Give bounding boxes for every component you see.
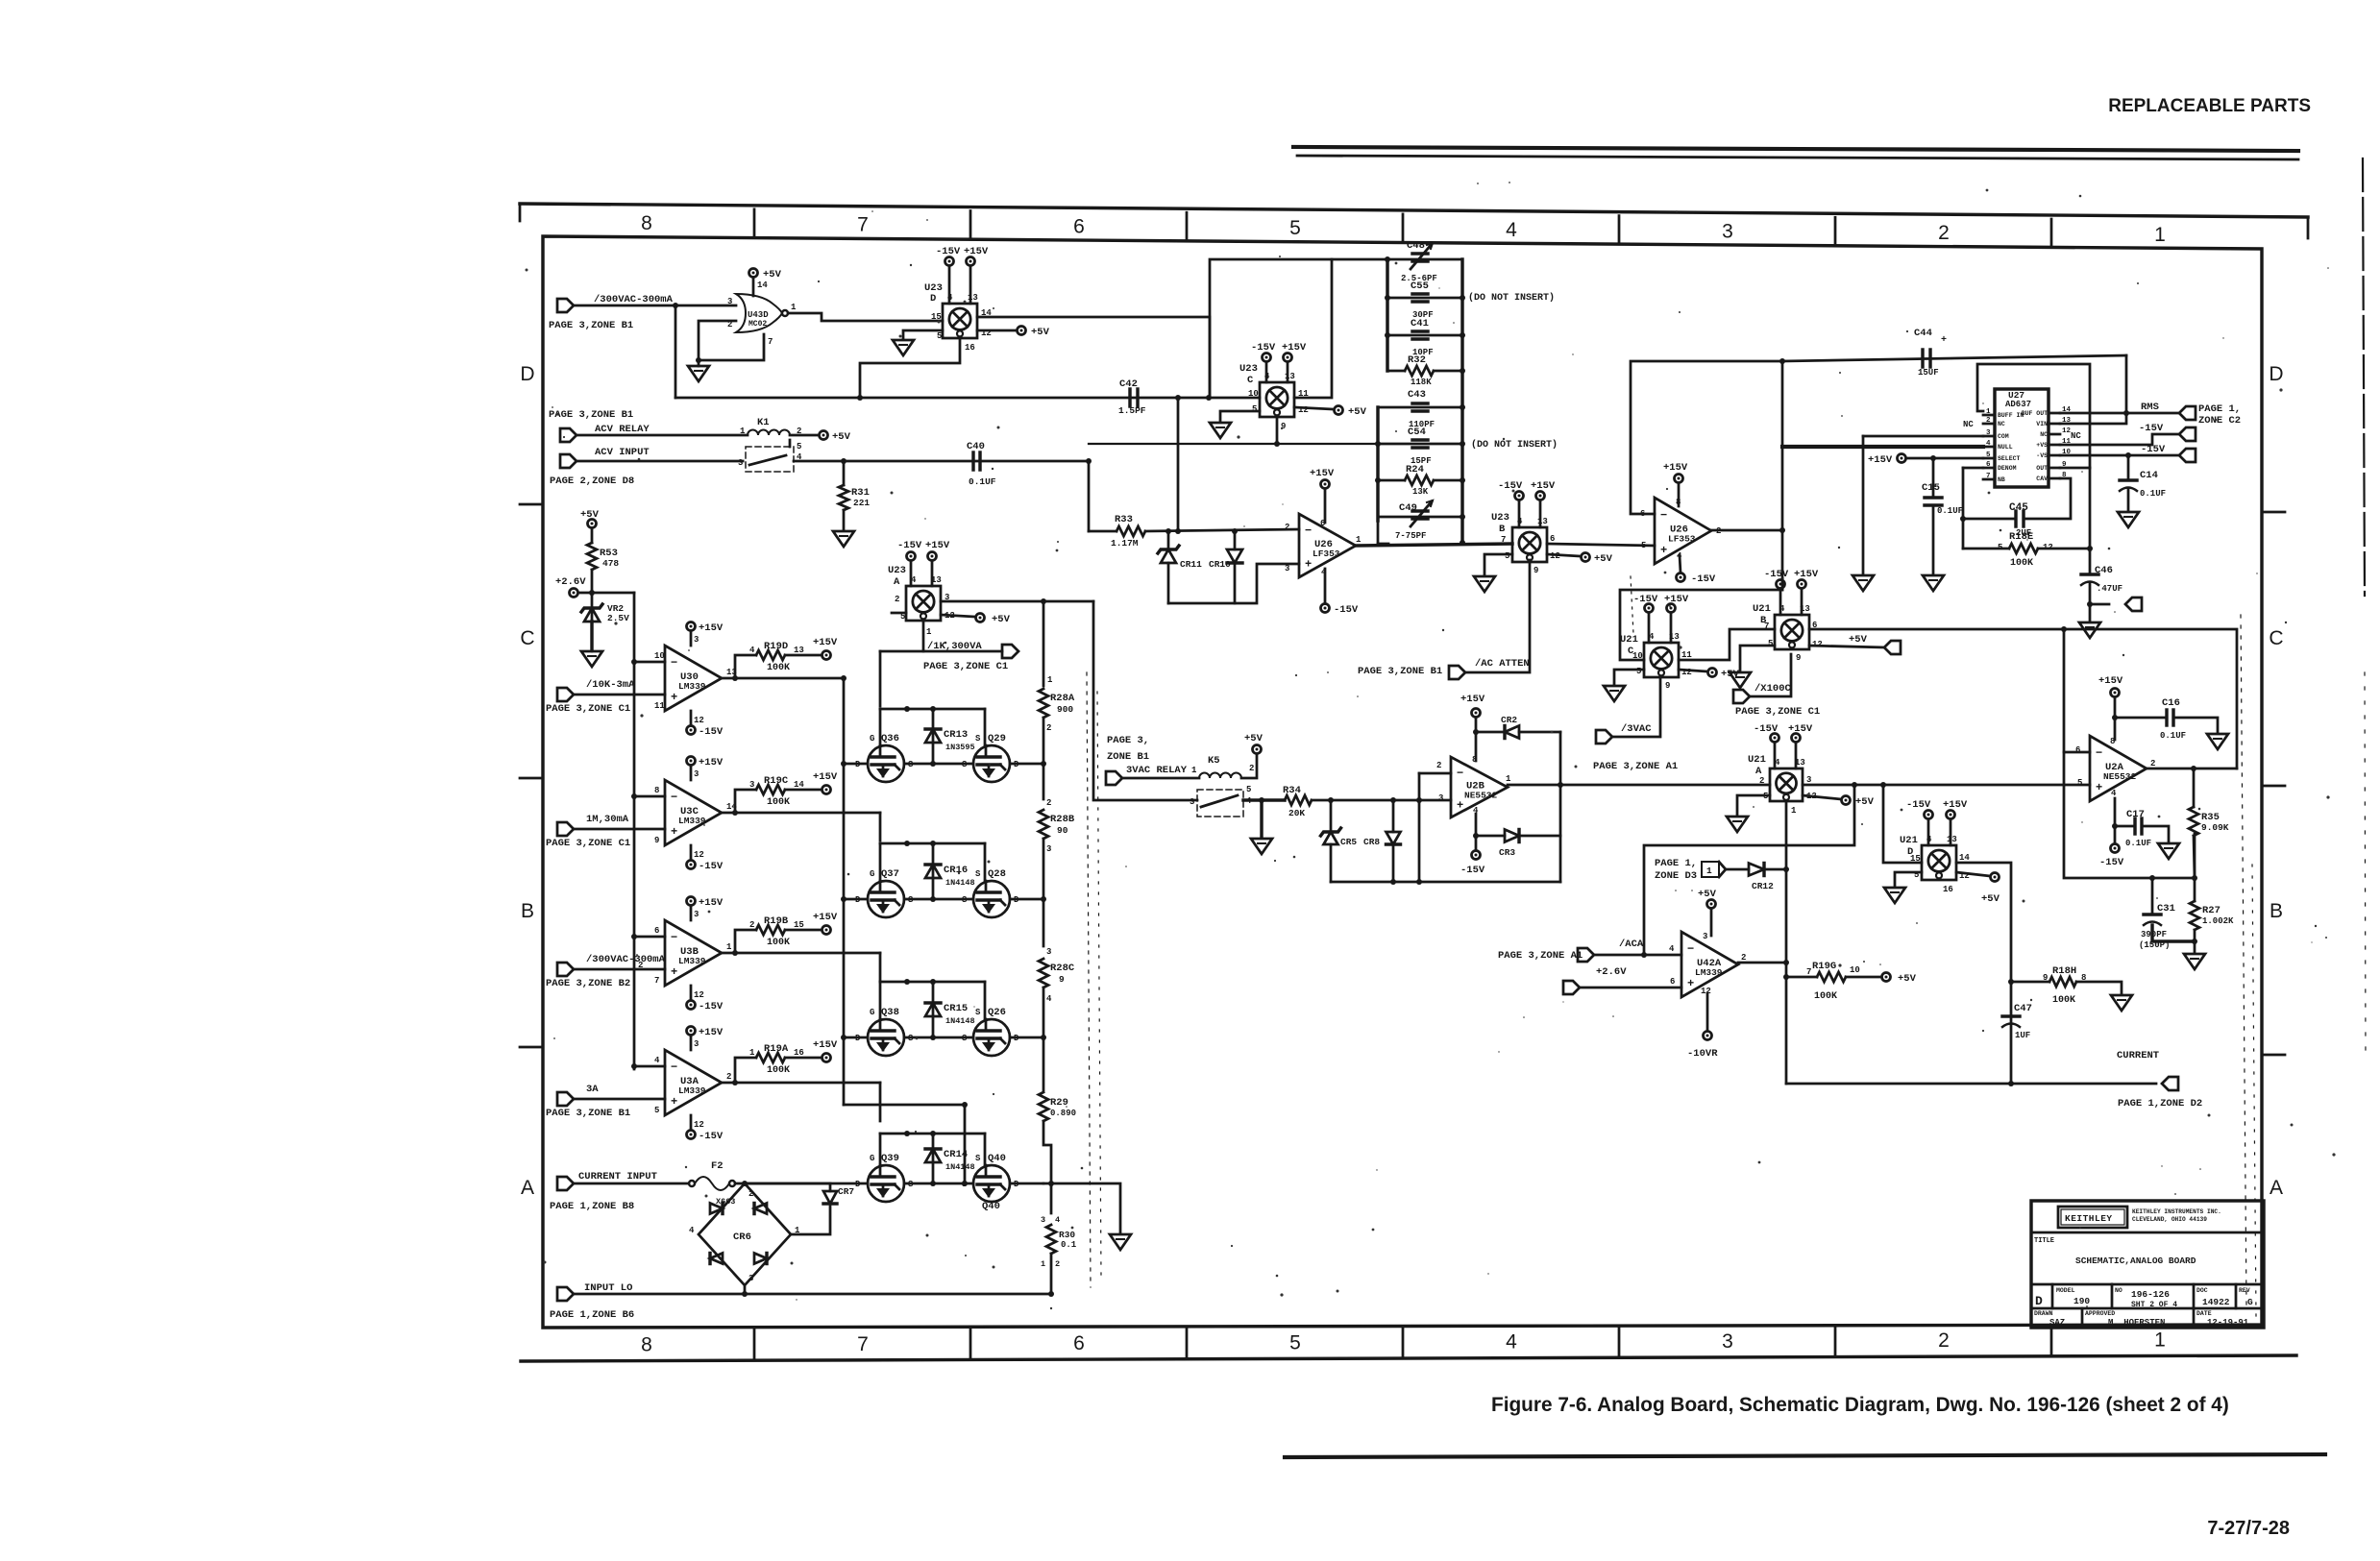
power +15V at R19D [822,651,831,660]
svg-text:−: − [2096,746,2102,760]
svg-text:5: 5 [2077,778,2082,788]
svg-text:B: B [1499,524,1506,535]
junction U23A out to chain [1041,598,1046,604]
svg-text:+5V: +5V [992,614,1011,625]
wire U26B - input feedback [1631,361,1782,514]
svg-text:100K: 100K [767,663,790,673]
wire U23B pin9 to /AC ATTEN [1465,560,1530,672]
wire output down to U21C [1620,590,1782,660]
row wire middle Q39 [904,1183,973,1185]
wire U27 pin6 DENOM [1963,467,1983,470]
U27 left pin 6 DENOM [1983,467,1995,470]
gate stub Q39 [879,1134,882,1165]
svg-text:5: 5 [1998,543,2002,552]
resistor R34 [1285,795,1312,805]
wire U21B pin9 to /X100C [1750,654,1791,696]
page ref arrow /ACA [1578,948,1594,962]
wire U2A pin4 down [2114,798,2117,843]
svg-text:12: 12 [694,1120,704,1130]
gate rail row Q36 [880,708,985,711]
op-amp U2B [1451,757,1508,817]
svg-text:7: 7 [1501,535,1506,545]
svg-text:KEITHLEY: KEITHLEY [2065,1213,2113,1224]
wire U21D pin5 to ground [1895,872,1922,886]
wire U23A pin5 stub [892,612,906,615]
svg-text:LM339: LM339 [678,1085,706,1096]
svg-text:+15V: +15V [2098,675,2123,687]
svg-text:+: + [2096,781,2102,794]
page ref arrow /300VAC-300mA input [557,299,574,312]
wire U2B - input [1419,772,1451,775]
svg-text:+15V: +15V [1310,468,1335,479]
title block row3 divider [2031,1283,2264,1286]
svg-text:8: 8 [641,212,652,234]
svg-text:S: S [975,1154,981,1163]
svg-text:C: C [1247,375,1254,386]
svg-text:CR10: CR10 [1209,559,1231,570]
power -15V at U21D [1925,811,1933,819]
svg-text:1: 1 [1041,1259,1045,1269]
power +5V at U21D [1991,873,2000,882]
svg-text:221: 221 [853,498,870,508]
capacitor C43 [1378,406,1462,409]
svg-text:1: 1 [1706,866,1712,876]
svg-text:100K: 100K [767,938,790,948]
U27 left pin 2 NC [1983,423,1995,426]
feedback left rail U2B [1418,773,1421,882]
page ref arrow /1K,300VA [1002,645,1018,658]
svg-text:A: A [894,576,900,588]
svg-text:C49: C49 [1399,502,1417,514]
svg-text:2: 2 [895,595,899,604]
svg-text:10: 10 [1632,651,1643,661]
svg-text:+15V: +15V [699,897,724,909]
svg-text:11: 11 [654,701,665,711]
U27 right pin 9 OUT [2049,467,2060,470]
wire U30 output [722,677,844,680]
op-amp U26 [1299,514,1356,577]
ground at U21B [1730,672,1751,688]
svg-text:1.002K: 1.002K [2202,916,2234,926]
svg-text:0.1UF: 0.1UF [1937,506,1963,516]
svg-text:R28C: R28C [1050,963,1075,974]
diode CR3 [1505,830,1519,842]
svg-text:100K: 100K [767,797,790,808]
svg-text:NC: NC [1998,421,2005,427]
svg-text:U23: U23 [1239,363,1258,375]
wire R35 to node [2194,836,2195,878]
svg-text:R18H: R18H [2052,965,2076,977]
capacitor C46 [2081,573,2098,575]
svg-text:U21: U21 [1748,754,1766,766]
wire R18E to C46 node [2038,548,2090,550]
svg-text:B: B [2270,900,2283,922]
U27 right pin 10 -VS [2049,454,2060,457]
svg-text:C: C [520,627,534,649]
svg-text:15: 15 [794,920,804,930]
svg-text:PAGE 3,ZONE A1: PAGE 3,ZONE A1 [1593,761,1678,772]
wire chain top [1043,601,1045,686]
ground at U21D [1884,888,1905,903]
wire CR2 to rail [1519,731,1560,734]
svg-text:.47UF: .47UF [2097,584,2122,594]
row wire middle Q37 [904,898,973,901]
junction /300VAC drop [673,303,678,308]
wire to ground at contact [1260,800,1263,837]
title block row4 divider [2031,1307,2264,1310]
power +2.6V terminal [570,589,578,598]
svg-text:13K: 13K [1412,487,1429,497]
svg-text:1: 1 [749,1048,755,1058]
resistor R31 [843,461,846,485]
wire R19G to +5V [1846,976,1881,979]
svg-text:-15V: -15V [1498,480,1523,492]
op-amp U3C [665,780,722,845]
junction +2.6V node [589,590,595,596]
svg-text:+15V: +15V [699,622,724,634]
svg-text:MC02: MC02 [748,320,767,329]
svg-text:2: 2 [1046,723,1051,733]
zone tick top [969,211,972,240]
U27 right pin 12 NC [2049,433,2060,436]
scan artifact fold line [1087,672,1091,1287]
wire U21C out to U21B [1679,629,1775,660]
svg-text:PAGE 1,ZONE B8: PAGE 1,ZONE B8 [550,1201,634,1212]
resistor R29 [1039,1092,1048,1121]
svg-text:R29: R29 [1050,1097,1068,1109]
svg-text:−: − [671,656,677,670]
svg-text:C48: C48 [1407,240,1425,252]
wire C17 to ground [2142,826,2169,841]
row wire right Q40 [1010,1183,1043,1185]
svg-text:0.1: 0.1 [1061,1240,1077,1250]
wire gate pin7 [699,334,764,360]
svg-text:TITLE: TITLE [2034,1237,2054,1245]
junction U3C out to R19C [732,810,738,816]
svg-text:14922: 14922 [2202,1297,2230,1307]
svg-text:Q28: Q28 [988,868,1006,880]
resistor R19G [1786,976,1817,979]
svg-text:3: 3 [1190,797,1194,807]
resistor R19B pullup [735,930,756,953]
wire C45 to CAV [2024,478,2071,519]
wire U27 pin13 to top rail [2060,355,2126,424]
svg-text:PAGE 3,ZONE B1: PAGE 3,ZONE B1 [549,409,633,421]
svg-text:CR11: CR11 [1180,559,1202,570]
svg-text:S: S [975,869,981,879]
svg-text:NC: NC [2040,431,2048,438]
transistor Q29 [973,745,1010,782]
power -15V below U30 [687,726,696,735]
wire U21C pin5 to ground [1614,670,1644,684]
caption underline [1285,1454,2325,1457]
svg-text:+: + [1687,977,1694,990]
wire /1K to row1 gate rail [879,651,882,706]
row wire Q38 [844,1037,868,1039]
wire 3VAC input line [1093,601,1197,800]
clamp rail bottom U2B [1331,881,1560,884]
wire +5V to gate [752,278,755,296]
power +15V at U2B [1472,709,1481,718]
wire + input U3B [574,968,665,971]
wire U21D pin15 input [1883,785,1922,863]
svg-text:CR5: CR5 [1340,837,1357,847]
svg-text:4: 4 [749,646,755,655]
wire /ACA pickup rail [1644,785,1854,955]
svg-text:C14: C14 [2140,470,2158,481]
svg-text:+5V: +5V [1855,796,1875,808]
svg-text:NC: NC [2071,431,2081,441]
page ref arrow 3VAC RELAY [1106,771,1122,785]
svg-text:PAGE 3,ZONE B1: PAGE 3,ZONE B1 [549,320,633,331]
power +15V at U23C [1284,354,1292,362]
wire fuse to Q39 [735,1183,868,1185]
wire /3VAC to U21C pin9 [1612,677,1660,737]
page ref arrow input U30 [557,688,574,701]
svg-text:9: 9 [1281,422,1286,431]
U27 left pin 1 BUFF IN [1983,414,1995,417]
wire U2A output [2147,768,2237,770]
zone tick bottom [1618,1326,1621,1355]
zone tick right edge [2262,785,2285,788]
resistor R53 [591,528,594,543]
row wire right Q26 [1010,1037,1043,1039]
svg-text:R33: R33 [1115,514,1133,525]
row wire right Q28 [1010,898,1043,901]
power +15V at U21C [1667,604,1676,613]
svg-text:REV: REV [2239,1287,2250,1294]
svg-text:6: 6 [1986,461,1991,469]
diode CR10 [1234,531,1237,549]
wire U27 pin10 -VS [2060,454,2179,457]
svg-text:-15V: -15V [699,1131,724,1142]
resistor R35 [2193,768,2196,807]
wire bus corner to row4 [844,1105,965,1183]
page ref arrow /3VAC [1596,730,1612,744]
ground below R31 [833,531,854,547]
ladder left rail lower [1376,407,1379,521]
svg-text:+15V: +15V [1531,480,1556,492]
wire C46 down [2089,582,2092,621]
svg-text:1: 1 [1047,675,1053,685]
svg-text:2: 2 [748,1189,753,1199]
diode CR13 [932,709,935,764]
svg-text:+: + [671,691,677,704]
power +5V at K5 [1253,745,1262,754]
svg-text:R30: R30 [1059,1230,1075,1240]
svg-text:10: 10 [1248,389,1259,399]
ground at U21C [1604,686,1625,701]
op-amp U3B [665,920,722,986]
ground below K5 contact [1251,839,1272,854]
resistor R18E [1963,548,2009,550]
zone tick top [1402,214,1405,243]
wire CR3 to rail [1519,835,1560,838]
svg-text:C44: C44 [1914,328,1932,339]
gate stub Q36 [879,709,882,745]
svg-text:4: 4 [1986,440,1991,448]
wire U27 pin9 buffer loop [2060,467,2090,470]
ground at R18H [2111,995,2132,1011]
capacitor C45 [1963,518,2016,521]
wire + input U30 [574,694,665,696]
svg-text:3: 3 [1703,932,1707,941]
relay coil K1 [748,430,790,435]
svg-text:8: 8 [641,1334,652,1356]
svg-text:+15V: +15V [1794,569,1819,580]
svg-text:LM339: LM339 [678,816,706,826]
power +5V above R53 [588,520,597,528]
svg-text:7: 7 [1986,473,1991,480]
svg-text:16: 16 [794,1048,804,1058]
svg-text:+15V: +15V [1943,799,1968,811]
svg-text:-15V: -15V [1460,865,1485,876]
svg-text:16: 16 [965,343,975,353]
wire U23C pin12 to +5V [1294,407,1334,409]
svg-text:ZONE C2: ZONE C2 [2198,415,2241,427]
ruler left end tick [519,204,522,221]
power +15V above U3A [687,1027,696,1036]
ground at C17 [2158,843,2179,859]
svg-text:16: 16 [1943,885,1953,894]
svg-text:LM339: LM339 [678,956,706,966]
wire bridge bottom to INPUT LO [744,1285,747,1294]
svg-text:LM339: LM339 [1695,967,1723,978]
svg-text:PAGE 3,ZONE C1: PAGE 3,ZONE C1 [546,703,630,715]
row wire middle Q38 [904,1037,973,1039]
analog switch U21B [1775,615,1809,649]
IC U27 AD637 [1995,389,2049,487]
zone tick left edge [520,503,543,506]
wire C31 to node [2152,925,2195,941]
svg-text:5: 5 [797,442,801,451]
U27 left pin 7 NB [1983,478,1995,481]
svg-text:+5V: +5V [832,431,851,443]
svg-text:+5V: +5V [1031,327,1050,338]
svg-text:3A: 3A [586,1084,599,1095]
wire U21D out to R18H node [1956,863,2011,1084]
power +15V at U23D [967,257,975,266]
svg-text:1: 1 [2154,224,2166,246]
analog switch U21C [1644,643,1679,677]
svg-text:-15V: -15V [1633,594,1658,605]
junction CR5 [1328,797,1334,803]
transistor Q37 [868,881,904,917]
contact K5 blade [1201,795,1238,807]
svg-text:PAGE 3,ZONE C1: PAGE 3,ZONE C1 [546,838,630,849]
wire K5 to +5V [1241,754,1257,778]
svg-text:-15V: -15V [1691,573,1716,585]
resistor R18H [2011,981,2049,984]
svg-text:118K: 118K [1411,378,1432,387]
analog switch U21A in series on main line [1770,768,1803,801]
analog switch U23A [906,586,941,621]
resistor R24 [1378,479,1405,482]
op-amp U26B [1655,498,1711,564]
svg-text:B: B [521,900,534,922]
power -15V at U23D [945,257,954,266]
svg-text:3: 3 [1722,220,1733,242]
svg-text:4: 4 [1055,1215,1060,1225]
svg-text:−: − [1687,942,1694,956]
page ref arrow RMS [2179,406,2196,420]
svg-text:10: 10 [654,651,665,661]
wire U23D output pin14 [977,317,1210,398]
svg-text:190: 190 [2073,1296,2090,1306]
svg-text:+15V: +15V [699,1027,724,1038]
wire U23D pin5 to ground [903,330,943,338]
wire CURRENT line [1786,1083,2156,1085]
svg-text:6: 6 [1073,1332,1085,1354]
power +5V at U42A [1707,900,1716,909]
svg-text:LF353: LF353 [1313,549,1340,559]
svg-text:R32: R32 [1408,354,1426,366]
svg-text:U43D: U43D [748,310,769,320]
svg-text:6: 6 [654,926,659,936]
wire to C16 [2115,717,2167,720]
svg-text:1N4148: 1N4148 [945,1162,975,1172]
svg-text:7: 7 [654,976,659,986]
svg-text:3: 3 [694,635,699,645]
wire U21D pin12 to +5V [1956,872,1990,876]
svg-text:+: + [1941,335,1947,346]
junction CR8 [1390,797,1396,803]
comparator output bus [843,678,846,1105]
contact blade [749,455,786,465]
svg-text:+5V: +5V [763,269,782,280]
svg-text:+15V: +15V [1788,723,1813,735]
svg-text:+5V: +5V [1981,893,2000,905]
svg-text:7: 7 [857,214,869,236]
power +15V at U26B [1675,475,1683,483]
svg-text:C46: C46 [2095,565,2113,576]
wire ACV INPUT to contact [577,460,746,463]
svg-text:−: − [1457,767,1463,780]
svg-text:LF353: LF353 [1668,534,1696,545]
svg-text:C: C [2269,627,2283,649]
svg-text:R28B: R28B [1050,814,1075,825]
power -15V at U2A [2111,844,2120,853]
svg-text:C55: C55 [1411,280,1429,292]
wire U21A pin1 node vertical [1785,801,1788,1084]
svg-text:C40: C40 [967,441,985,452]
row wire middle Q36 [904,763,973,766]
svg-text:C41: C41 [1411,318,1429,329]
resistor R33 [1089,530,1116,533]
svg-text:1: 1 [926,627,932,637]
svg-text:(DO NOT INSERT): (DO NOT INSERT) [1471,439,1558,451]
svg-text:/AC ATTEN: /AC ATTEN [1475,658,1530,670]
op-amp U2A [2090,736,2147,801]
capacitor C40 [971,452,974,470]
svg-text:PAGE 3,ZONE A1: PAGE 3,ZONE A1 [1498,950,1583,962]
wire top line C44 [1782,355,2126,361]
transistor Q26 [973,1019,1010,1056]
svg-text:/300VAC-300mA: /300VAC-300mA [586,954,666,965]
capacitor C16 [2165,710,2168,725]
svg-text:900: 900 [1057,704,1073,715]
svg-text:3: 3 [727,297,732,306]
wire ACV to R33 drop [1088,461,1091,531]
svg-text:+15V: +15V [925,540,950,551]
junction contact ground [1259,797,1264,803]
analog switch U23B [1512,527,1547,562]
svg-text:9: 9 [2043,973,2048,983]
svg-text:APPROVED: APPROVED [2085,1310,2115,1317]
svg-text:20K: 20K [1288,808,1305,818]
svg-text:15: 15 [931,312,942,322]
op-amp U30 [665,646,722,711]
